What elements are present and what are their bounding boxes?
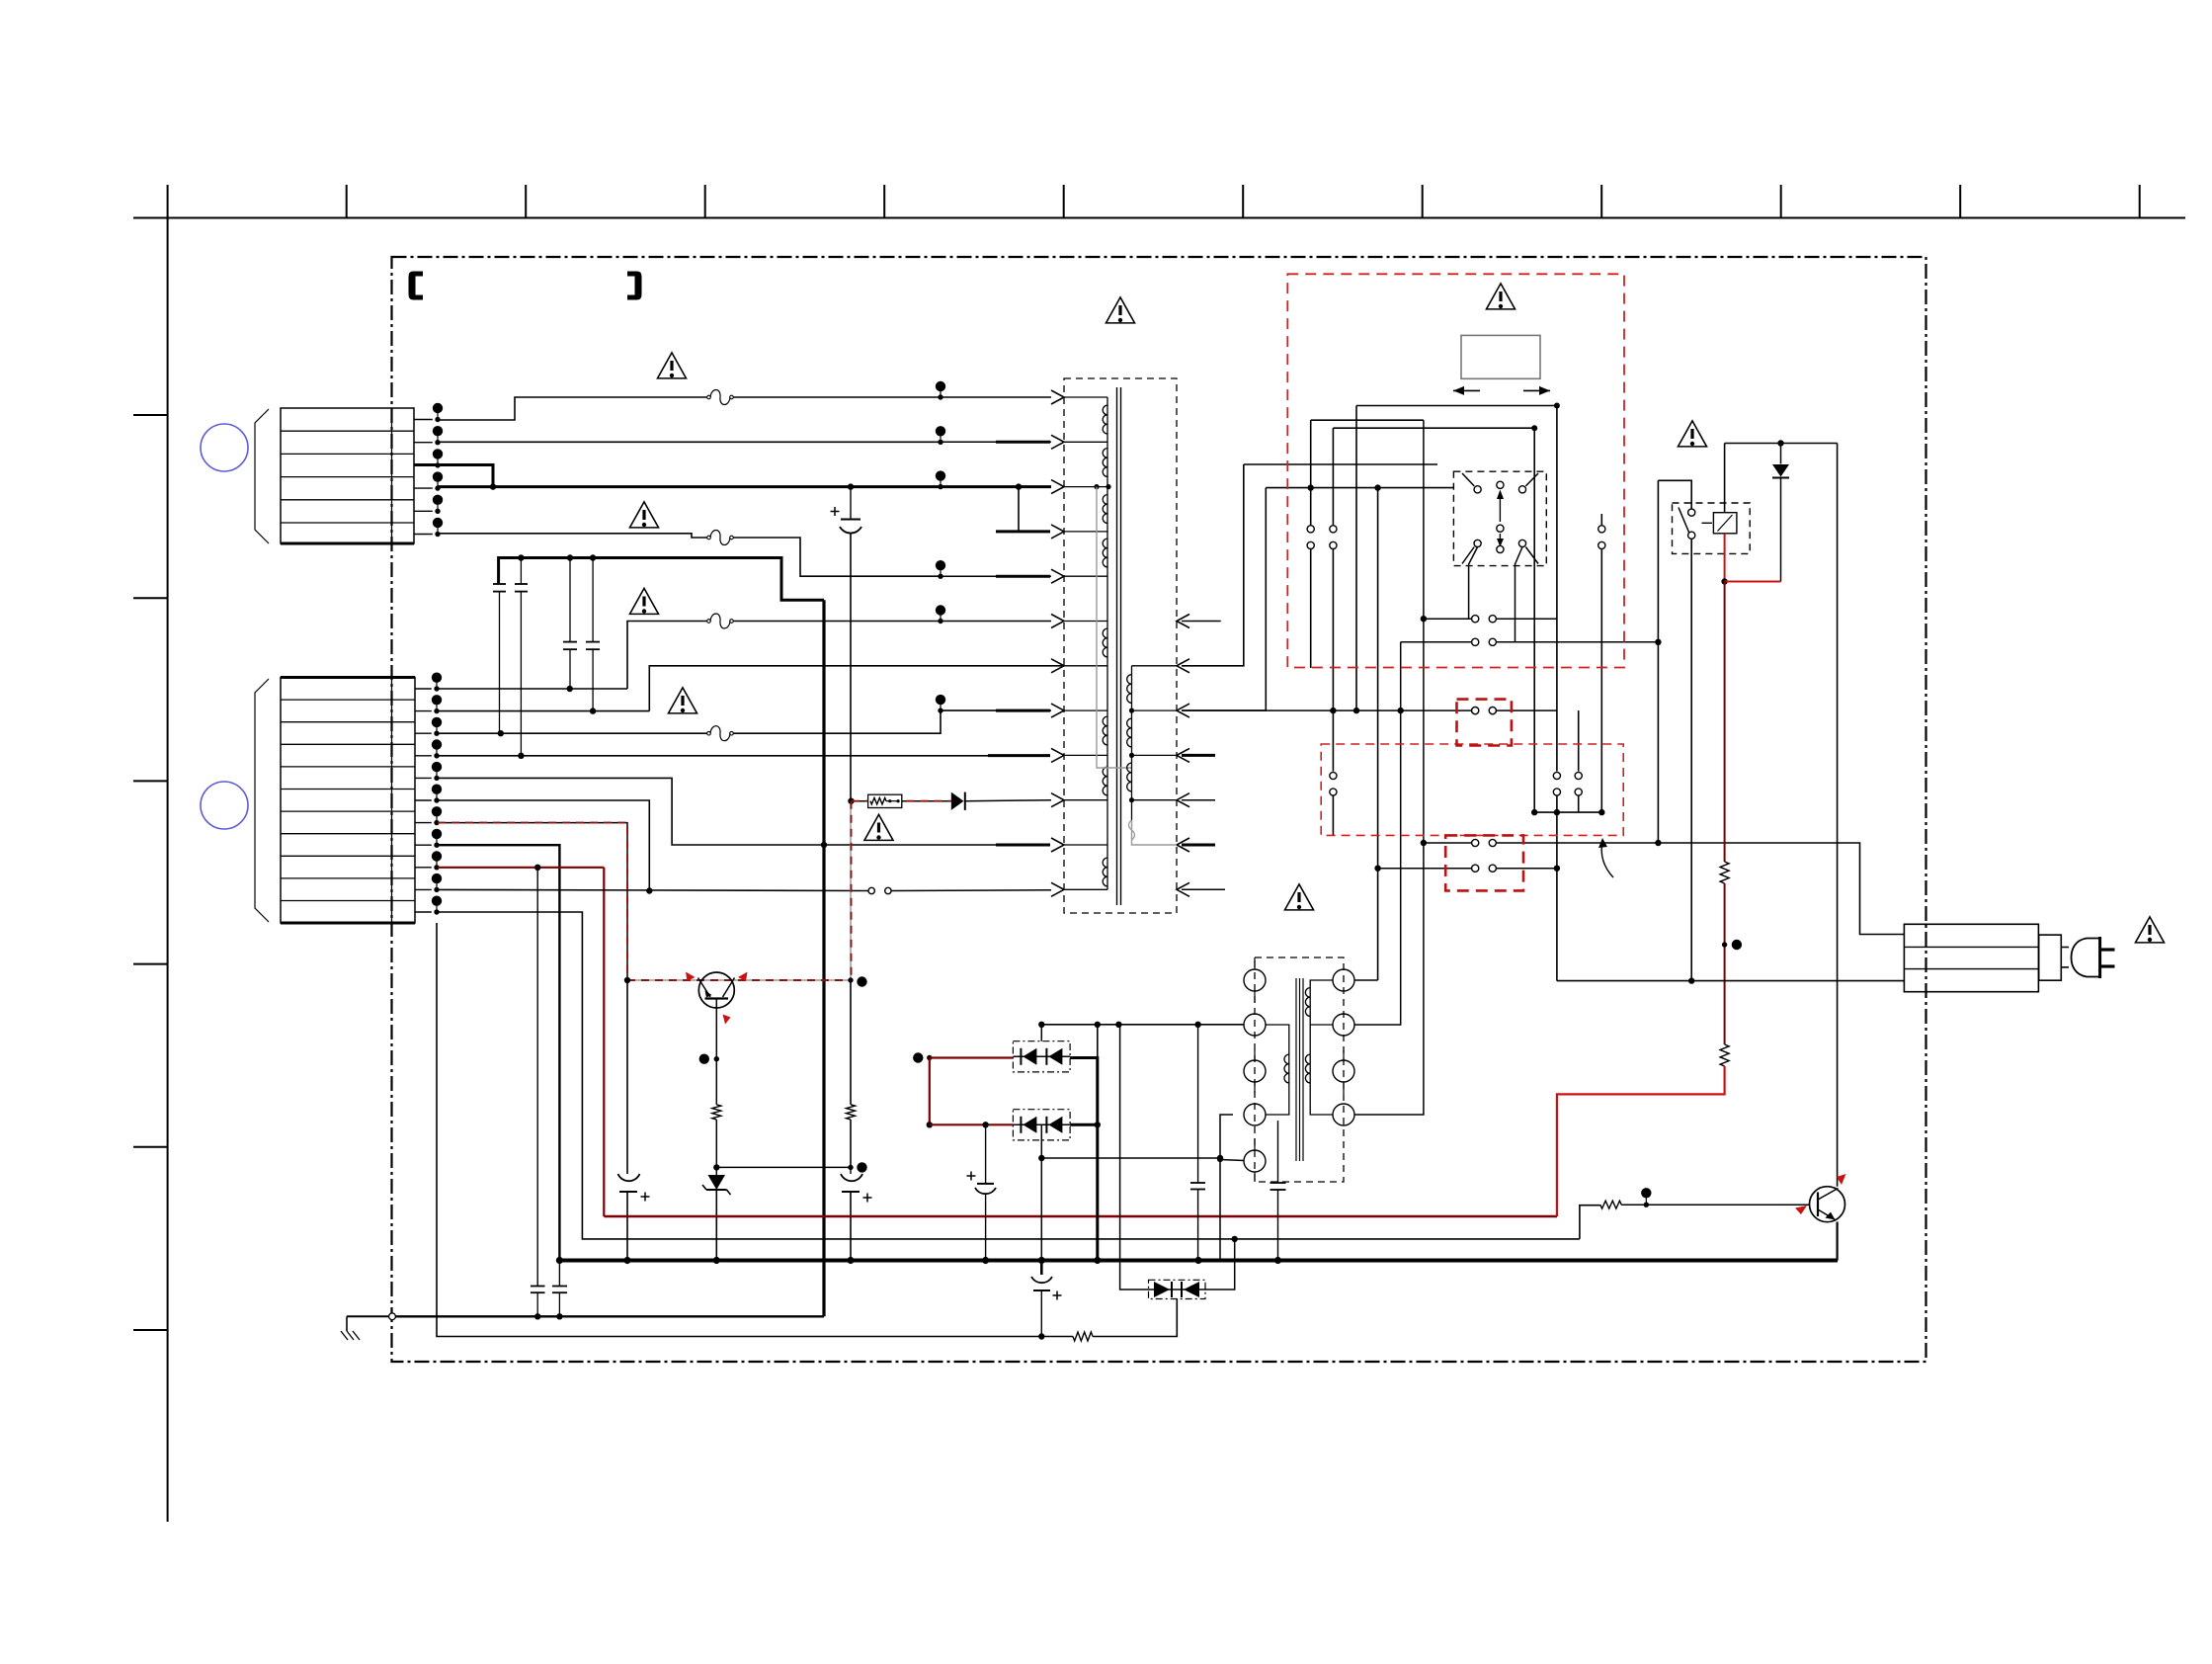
wire net810 (848, 798, 951, 804)
T2 left winding (1266, 1025, 1289, 1115)
line net878 (1378, 865, 1557, 872)
connector CN2 body (255, 678, 415, 924)
T2 right winding (1305, 980, 1333, 1115)
selector knob box gray (1461, 335, 1540, 378)
warning triangle above T1 (1106, 297, 1135, 323)
resistor R2 (847, 1105, 856, 1120)
board connector pin pairs x952 (936, 381, 1051, 713)
marked red dash x862 (851, 801, 853, 980)
main board dash-dot border (392, 257, 1926, 1362)
capacitor C5 (841, 1167, 872, 1260)
v1679 (1657, 480, 1659, 843)
red box B4 (1445, 835, 1523, 890)
row628 right stub (1182, 621, 1221, 623)
v1326 upper (1308, 420, 1314, 525)
wire CN1 p1 to F1 net402 (438, 397, 941, 420)
wire D2 center down (1040, 1124, 1042, 1260)
net992 inlet bottom (1557, 980, 1905, 982)
T1 tap junction gray (1094, 484, 1110, 489)
warning triangle above F2 (630, 502, 659, 528)
connector CN1 body (255, 408, 414, 543)
T1 primary side arrows (1051, 390, 1064, 896)
transformer T1 box and core (1064, 378, 1177, 913)
maroon vertical x611 (603, 868, 605, 1216)
resistor R4 (1720, 1044, 1729, 1066)
warning triangle T10 (864, 814, 893, 840)
AC inlet and plug (1904, 924, 2114, 991)
curved leader arrow (1598, 838, 1613, 877)
red rail (604, 1215, 1557, 1217)
resistor R1 (712, 1105, 721, 1120)
wire D3 left up (1120, 1025, 1149, 1290)
warning triangle relay (1679, 421, 1707, 447)
ref circle A (201, 424, 248, 471)
v1258 to row674 (1182, 464, 1244, 666)
connector CN2 pins (415, 673, 442, 915)
vertical x1213 cap C9 (1190, 1025, 1205, 1261)
v1553 (1531, 428, 1537, 815)
thick ground rail (556, 1257, 1838, 1264)
wire CN1 p3 thick elbow (414, 465, 493, 488)
bus 564 thick (499, 554, 824, 600)
capacitor CB2 (586, 558, 600, 711)
wire CN2 p8 to capB thick (438, 845, 559, 1286)
T1 heavy stubs (996, 442, 1050, 845)
wire R1 to ZD (713, 1120, 719, 1171)
capacitor CB1 (563, 558, 577, 690)
relay coil (1713, 513, 1737, 534)
relay switch (1679, 508, 1695, 540)
wire CN2 p10 spark gap net900 (438, 887, 1051, 893)
diode D5 (951, 792, 1051, 810)
relay coil top lead (1724, 444, 1726, 513)
T1 secondary side arrows (1177, 615, 1189, 897)
thick link D1-D2 right (1070, 1058, 1101, 1261)
T2 c5L feed (1220, 1160, 1244, 1161)
pin pair Q3 base (1641, 1188, 1651, 1207)
switch contacts v1326 (1307, 526, 1314, 668)
wire net1037 (1041, 1022, 1244, 1028)
resistor R5 bottom (1073, 1332, 1093, 1341)
wire CN2 p11 thin rail (438, 912, 1580, 1239)
v1417 (1354, 642, 1401, 1025)
junction dots Q2 line (624, 976, 867, 986)
wire C2 chain (850, 980, 852, 1167)
red link to D4 (1725, 581, 1781, 583)
h net493 (1266, 484, 1453, 490)
ground symbol (341, 1313, 395, 1340)
warning triangle in B1 (1487, 284, 1516, 309)
transformer T2 pins (1244, 957, 1354, 1182)
wire Q3 emitter (1836, 1222, 1838, 1261)
red drop bottom (1557, 1066, 1725, 1216)
relay switch bottom lead (1688, 540, 1694, 984)
red arrows Q2 (686, 972, 748, 1025)
maroon wire CN2 p9 (438, 865, 604, 871)
relay switch top lead (1658, 480, 1691, 509)
red drop x1746 upper (1724, 582, 1726, 863)
red box B2 small (1457, 700, 1512, 746)
connector CN1 pins (414, 403, 443, 537)
wire D1 center up (1038, 1022, 1044, 1041)
row719 net right (1182, 707, 1557, 713)
wire ZD to C2 chain (716, 1162, 866, 1172)
transistor Q3 (1810, 1187, 1845, 1222)
pin pair Q2 emitter (699, 1054, 719, 1064)
row809 right stub (1182, 799, 1215, 801)
v1281 to row719 (1182, 488, 1266, 710)
relay coil red lead (1721, 534, 1727, 585)
wire CN1 p2 net447 (438, 441, 941, 443)
wire Q2 emitter (715, 1059, 717, 1105)
row764 right stub (1182, 754, 1215, 757)
stub net537 (1016, 483, 1050, 532)
red box B1 (1287, 274, 1624, 667)
v1576 upper (1553, 406, 1560, 981)
fuse F4 (707, 726, 734, 741)
maroon feed D1 (913, 1052, 1013, 1062)
wire CN1 p4 net492 thick (438, 483, 941, 489)
dual diode D2 (1013, 1110, 1070, 1140)
fuse F2 (707, 531, 734, 545)
ref circle B (201, 782, 248, 829)
T1 secondary bottom gray (1129, 820, 1178, 845)
marked red dash Q2 (627, 979, 851, 981)
resistor R6 (1600, 1201, 1621, 1208)
dual diode D1 (1013, 1041, 1070, 1072)
selector arrows (1453, 386, 1550, 395)
h net425 (1311, 419, 1424, 421)
red arrows Q3 (1795, 1174, 1846, 1214)
section title brackets (409, 272, 642, 300)
v1441 (1354, 420, 1427, 1115)
h_b net433 (1333, 425, 1537, 431)
capacitor C4 (618, 980, 650, 1261)
relay dash link (1702, 522, 1713, 524)
wire CN2 bottom net1352 (437, 923, 1073, 1340)
capacitor CA2 (515, 558, 528, 756)
capacitor C6 (x997) (967, 1124, 997, 1260)
resistor box R810 (868, 794, 902, 807)
v1597 (1575, 710, 1582, 812)
v1860 collector (1837, 444, 1839, 1187)
capacitor CA bottom (531, 1287, 545, 1317)
marked red dash net810 (852, 800, 951, 802)
warning triangle above F1 (658, 353, 687, 378)
wire CN2 p2 net674 (438, 666, 1064, 714)
capacitor C8 below rail (1031, 1261, 1062, 1337)
wire CN2 p3 to F4 net719 (438, 710, 1051, 736)
transistor Q2 (698, 972, 735, 1059)
warning triangle above F3 (630, 588, 659, 614)
zener ZD1 (702, 1167, 731, 1260)
line net853 to inlet top (1424, 839, 1905, 934)
page ruler frame (133, 185, 2185, 1522)
T1 secondary winding (1127, 666, 1177, 820)
warning triangle plug (2136, 917, 2165, 943)
wire R6 to Q3 (1621, 1204, 1809, 1206)
capacitor C7 (x1293) (1270, 1121, 1286, 1261)
resistor R3 (1720, 862, 1729, 883)
maroon vertical x941 (927, 1058, 933, 1128)
wire CN2 p4 net764 thick (438, 753, 1050, 759)
wire CN2 p5 net855 (438, 778, 996, 845)
thin rail to Q3 base (1580, 1206, 1600, 1239)
h net470 (1244, 463, 1437, 465)
v1621 (1534, 514, 1605, 815)
marked path red dash (438, 823, 627, 980)
capacitor C2 electrolytic (831, 487, 862, 980)
gray wire T1 (1097, 487, 1132, 768)
wire capA vertical (536, 868, 538, 1287)
marked gray line Q2 (627, 979, 851, 981)
line net649 (1401, 638, 1662, 645)
transformer T2 box and core (1255, 957, 1344, 1182)
fuse F1 (707, 390, 734, 405)
v1394 (1374, 488, 1380, 980)
warning triangle mid (1285, 884, 1314, 910)
fuse F3 (707, 614, 734, 628)
v1349 upper (1332, 428, 1334, 525)
row855 right stub (1182, 844, 1215, 847)
line net626 (1424, 616, 1557, 623)
net448 top (1725, 440, 1838, 446)
T1 primary winding (1064, 397, 1107, 889)
red box B3 (1321, 744, 1623, 835)
wire D3 right (1205, 1236, 1238, 1290)
capacitor CA1 (493, 584, 506, 733)
row900 right stub (1182, 888, 1225, 890)
thick vertical x834 (821, 600, 827, 1316)
red drop x1746 mid (1722, 883, 1742, 1044)
wire D1 right up (1095, 1022, 1101, 1058)
T2 c4L feed (1217, 1115, 1233, 1261)
relay dashed box (1673, 503, 1751, 553)
diode D4 (1772, 444, 1789, 582)
switch contacts v1349 (1330, 526, 1337, 836)
dual diode D3 (1149, 1280, 1206, 1298)
voltage selector switch S1 (1453, 471, 1546, 642)
h_a net410 (1356, 403, 1560, 409)
wire net1172 (1038, 1155, 1223, 1161)
wire CN2 p1 to F3 net628 (438, 622, 941, 693)
capacitor CB bottom (552, 1287, 567, 1317)
maroon feed D2 (930, 1122, 1014, 1127)
v1373 (1353, 406, 1359, 714)
warning triangle above F4 (669, 688, 697, 713)
marked path p7 wire (438, 823, 627, 980)
wire CN1 p6 to F2 (438, 534, 941, 576)
ground wire (395, 1313, 824, 1319)
wire CN2 p6 to spark row (438, 800, 653, 894)
wire D2 right (1070, 1123, 1098, 1126)
T2 c1R feed (1354, 979, 1378, 981)
wire R5 to D3 (1093, 1299, 1177, 1337)
T2 c2L feed (1198, 1024, 1244, 1026)
